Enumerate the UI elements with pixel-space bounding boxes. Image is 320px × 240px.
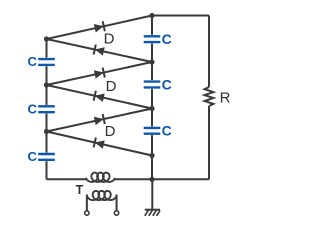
wire bottom left: [47, 178, 87, 180]
svg-text:T: T: [76, 183, 84, 197]
label D: [106, 78, 117, 95]
capacitor C1: [38, 59, 55, 65]
wire ground stub: [151, 179, 153, 209]
svg-text:C: C: [162, 76, 172, 92]
wire middle rail seg4: [151, 135, 153, 179]
svg-text:D: D: [105, 123, 116, 140]
node C: [44, 129, 49, 134]
wire slant 3: [47, 62, 153, 85]
wire slant 6: [47, 132, 153, 156]
label C of C1: [28, 54, 38, 69]
capacitor C2: [38, 106, 55, 112]
node B: [44, 82, 49, 87]
diode D3: [94, 68, 105, 79]
svg-text:D: D: [104, 31, 115, 48]
wire middle rail seg1: [151, 16, 153, 35]
ground: [145, 210, 160, 216]
wire primary to junction: [115, 178, 152, 180]
node M4: [149, 153, 154, 158]
svg-text:C: C: [162, 123, 172, 139]
wire slant 4: [47, 85, 153, 109]
label C of C6: [162, 123, 172, 139]
node M1: [149, 13, 154, 18]
capacitor C3: [38, 154, 55, 160]
diode D1: [94, 21, 105, 32]
diode D5: [94, 114, 105, 125]
wire right rail lower: [208, 106, 210, 179]
wire left rail seg4: [46, 161, 48, 179]
capacitor C4: [144, 36, 161, 42]
node A: [44, 36, 49, 41]
transformer T secondary winding: [87, 191, 117, 200]
terminal right: [114, 211, 118, 215]
svg-text:C: C: [28, 54, 38, 69]
label C of C5: [162, 76, 172, 92]
wire slant 5: [47, 109, 153, 132]
capacitor C6: [144, 128, 161, 134]
wire middle rail seg2: [151, 44, 153, 81]
resistor R: [205, 87, 214, 106]
svg-text:R: R: [220, 89, 231, 106]
node M3: [149, 106, 154, 111]
wire bottom right: [152, 178, 209, 180]
node M2: [149, 59, 154, 64]
wire slant 1: [47, 16, 153, 40]
wire left rail seg2: [46, 66, 48, 105]
node M5 (ground junction): [149, 177, 154, 182]
wire middle rail seg3: [151, 89, 153, 127]
diode D2: [94, 45, 105, 56]
svg-text:C: C: [28, 149, 38, 164]
label C of C2: [28, 102, 38, 117]
diode D6: [94, 138, 105, 149]
wire left rail seg1: [46, 39, 48, 58]
wire right rail upper: [208, 16, 210, 88]
label C of C3: [28, 149, 38, 164]
wire slant 2: [47, 39, 153, 62]
wire secondary lead right: [116, 195, 118, 211]
transformer T primary winding: [86, 173, 116, 182]
label D: [104, 31, 115, 48]
wire secondary lead left: [86, 195, 88, 211]
wire left rail seg3: [46, 114, 48, 153]
svg-text:D: D: [106, 78, 117, 95]
label D: [105, 123, 116, 140]
terminal left: [85, 211, 89, 215]
capacitor C5: [144, 82, 161, 88]
svg-text:C: C: [28, 102, 38, 117]
wire top output: [152, 15, 209, 17]
diode D4: [94, 91, 105, 102]
svg-text:C: C: [162, 31, 172, 47]
label C of C4: [162, 31, 172, 47]
label T: [76, 183, 84, 197]
label R: [220, 89, 231, 106]
